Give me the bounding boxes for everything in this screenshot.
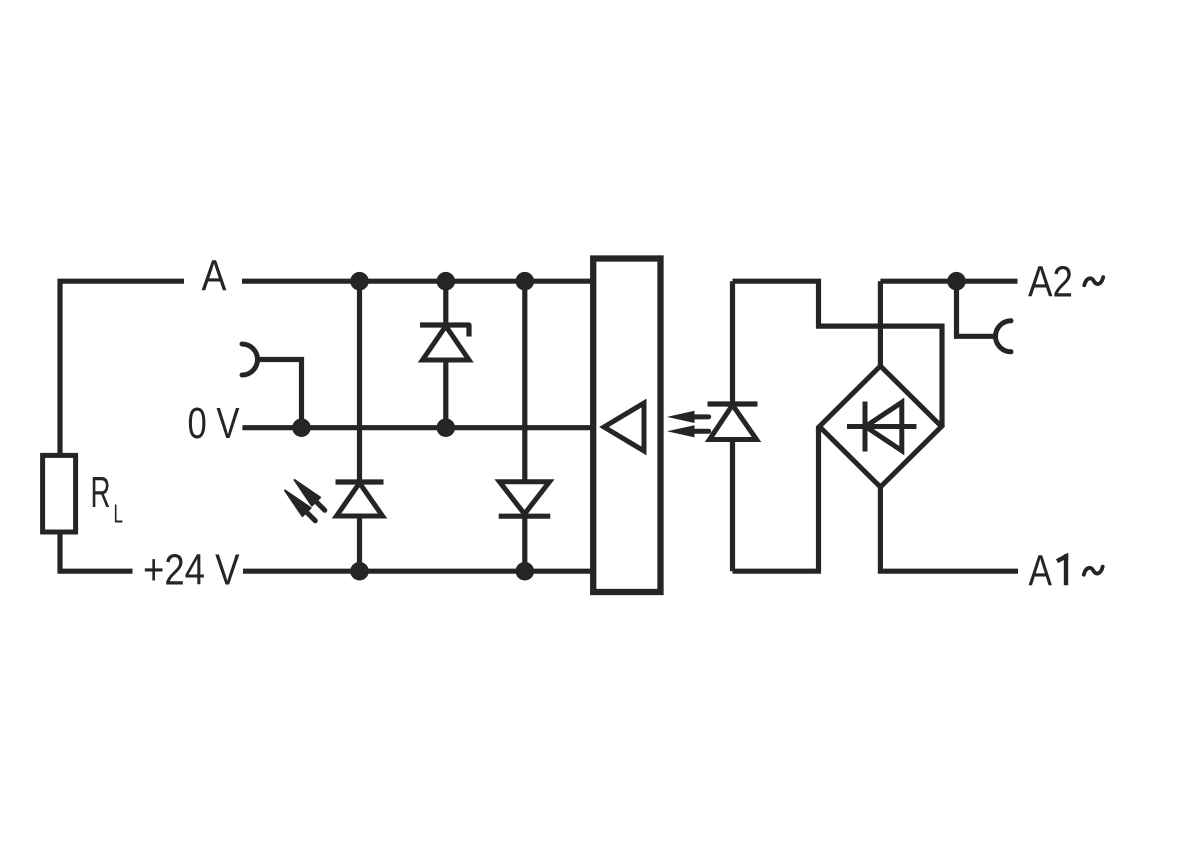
junction dot column1 / +24V line <box>350 562 369 581</box>
wire from node A to load resistor (left loop top) <box>60 281 184 455</box>
svg-text:+24 V: +24 V <box>143 546 240 595</box>
junction dot column3 / A line <box>516 272 535 291</box>
svg-text:A: A <box>202 252 228 301</box>
wire A2 to socket contact <box>957 281 996 336</box>
opto light arrow 1 <box>667 411 709 423</box>
wire bridge bottom corner to A1 <box>880 487 1018 571</box>
node label A <box>202 252 228 301</box>
bridge rectifier diamond <box>819 366 941 487</box>
wire opto LED bottom to bridge left corner <box>733 427 819 572</box>
socket contact symbol at 0V <box>242 344 258 375</box>
terminal label A2 <box>1028 258 1073 307</box>
zener diode <box>420 325 469 360</box>
wire A line <box>242 279 594 284</box>
svg-text:0 V: 0 V <box>188 399 241 448</box>
terminal label A1 <box>1029 547 1069 596</box>
bridge diode <box>847 402 917 452</box>
wire column 3 (diode branch) <box>522 281 527 571</box>
svg-text:A2: A2 <box>1028 258 1073 307</box>
wire from resistor RL to +24V line (left loop bottom) <box>60 532 133 571</box>
opto emitter LED <box>708 404 758 440</box>
svg-text:A: A <box>1029 547 1053 596</box>
wire opto LED column <box>730 281 735 571</box>
AC tilde at A2 <box>1084 277 1103 285</box>
node label 0 V <box>188 399 241 448</box>
output driver block U1 <box>593 259 660 593</box>
resistor RL <box>43 455 76 532</box>
LED emission arrow 1 <box>295 480 325 510</box>
wire 0V line <box>242 425 594 430</box>
junction dot column2 / 0V line <box>437 418 456 437</box>
wire from socket contact to 0V line <box>258 360 302 428</box>
wire column 1 (LED branch) <box>357 281 362 571</box>
node label +24 V <box>143 546 240 595</box>
label RL <box>91 468 124 529</box>
LED indicator diode <box>336 482 384 516</box>
wire opto LED top to bridge right corner <box>733 281 943 426</box>
socket contact symbol at A2 <box>996 321 1012 352</box>
LED emission arrow 2 <box>285 491 315 521</box>
junction dot 0V/socket <box>292 418 311 437</box>
wire +24V line <box>243 569 594 574</box>
junction dot column1 / A line <box>350 272 369 291</box>
AC tilde at A1 <box>1084 567 1103 575</box>
wire column 2 (zener branch) <box>443 281 448 428</box>
opto light arrow 2 <box>667 425 709 437</box>
svg-text:R: R <box>91 468 111 517</box>
svg-text:L: L <box>114 499 124 529</box>
opto receiver triangle <box>604 403 644 451</box>
reverse protection diode <box>499 482 551 517</box>
junction dot A2 <box>947 272 966 291</box>
wire A2 to bridge top corner <box>878 281 883 366</box>
junction dot column2 / A line <box>437 272 456 291</box>
junction dot column3 / +24V line <box>516 562 535 581</box>
wire A2 line <box>880 279 1017 284</box>
